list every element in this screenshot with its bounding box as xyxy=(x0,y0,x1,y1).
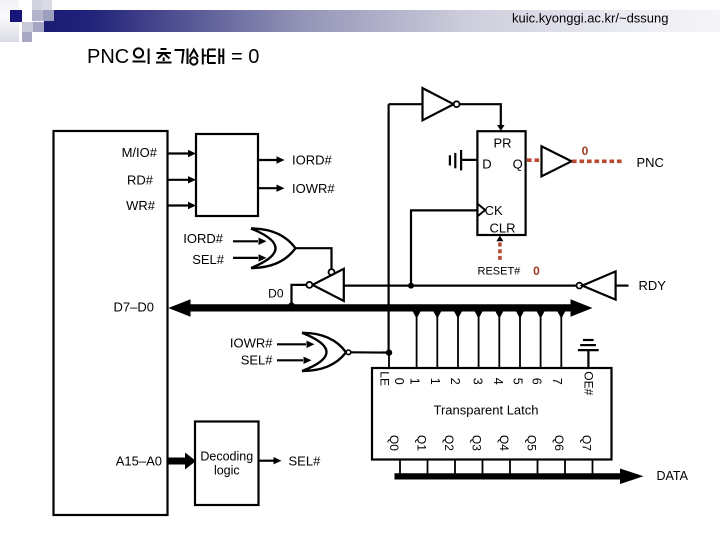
nor-gate G2 xyxy=(302,333,346,371)
wire U5 output xyxy=(616,285,629,287)
header light square E xyxy=(22,22,33,32)
svg-text:5: 5 xyxy=(510,378,524,385)
svg-text:Transparent Latch: Transparent Latch xyxy=(433,403,538,418)
nor bubble G2 xyxy=(346,350,351,355)
wire G1 input A xyxy=(233,240,258,242)
enable bubble U2 xyxy=(329,269,335,275)
output bubble U2 xyxy=(306,282,312,288)
title hangul ui xyxy=(133,48,149,64)
svg-text:PNC: PNC xyxy=(87,46,129,68)
tri-state buffer U2 xyxy=(313,269,344,301)
thick arrow A15-A0 xyxy=(168,453,197,470)
header lavender square C xyxy=(32,10,43,21)
junction dot D0 xyxy=(288,302,294,308)
svg-text:OE#: OE# xyxy=(582,371,596,395)
svg-text:A15–A0: A15–A0 xyxy=(116,454,162,469)
latch input drop wires xyxy=(417,311,562,368)
svg-text:Q7: Q7 xyxy=(580,435,594,451)
svg-text:Q4: Q4 xyxy=(497,435,511,451)
decoding logic box U7 xyxy=(195,422,259,506)
ground at OE# xyxy=(578,340,599,368)
header lavender square F xyxy=(33,22,44,32)
svg-text:IOWR#: IOWR# xyxy=(292,181,335,196)
system bus box xyxy=(54,131,168,515)
svg-text:IORD#: IORD# xyxy=(292,153,333,168)
svg-text:1: 1 xyxy=(407,378,421,385)
svg-text:IORD#: IORD# xyxy=(183,231,224,246)
wire RESET# xyxy=(344,285,577,287)
svg-text:Q5: Q5 xyxy=(525,435,539,451)
dashed wire U4 to PNC xyxy=(572,160,624,164)
wire SEL# out xyxy=(259,460,275,462)
svg-text:IOWR#: IOWR# xyxy=(230,336,273,351)
svg-text:Decoding: Decoding xyxy=(200,449,253,463)
svg-text:kuic.kyonggi.ac.kr/~dssung: kuic.kyonggi.ac.kr/~dssung xyxy=(512,11,668,26)
title hangul sang xyxy=(190,49,207,65)
svg-text:0: 0 xyxy=(533,264,540,278)
wire WR# xyxy=(168,204,190,206)
data bus D7-D0 xyxy=(168,299,592,316)
header navy square xyxy=(10,10,22,22)
junction dot CK xyxy=(408,283,414,289)
DATA bus xyxy=(395,469,644,485)
svg-text:6: 6 xyxy=(530,378,544,385)
wire U3 output to PR xyxy=(460,104,501,126)
svg-text:SEL#: SEL# xyxy=(241,353,274,368)
CLR arrowhead xyxy=(496,236,503,242)
wire G2 input A xyxy=(277,343,306,345)
wire IOWR# out xyxy=(258,187,277,189)
wire to D xyxy=(461,159,477,161)
wire CK xyxy=(411,210,477,285)
bubble U5 xyxy=(577,283,583,289)
svg-text:WR#: WR# xyxy=(126,198,156,213)
svg-text:Q6: Q6 xyxy=(552,435,566,451)
svg-text:Q: Q xyxy=(513,157,523,172)
wire G1 input B xyxy=(233,257,258,259)
svg-text:SEL#: SEL# xyxy=(192,252,225,267)
header light square B xyxy=(42,0,52,10)
title hangul gi xyxy=(175,49,188,65)
header gray-blue square D xyxy=(43,10,54,21)
svg-text:DATA: DATA xyxy=(657,469,689,483)
wire U3 input xyxy=(389,103,423,105)
svg-text:D: D xyxy=(482,157,491,172)
svg-text:logic: logic xyxy=(214,463,240,477)
dashed wire Q to U4 xyxy=(527,158,541,162)
header gradient bar top xyxy=(54,10,720,21)
header light square A xyxy=(32,0,42,10)
latch output wires xyxy=(400,460,593,474)
D flip-flop U1 xyxy=(477,131,525,235)
wire U2 output to bus xyxy=(292,285,307,305)
wire G2 input B xyxy=(277,359,303,361)
svg-text:Q3: Q3 xyxy=(470,435,484,451)
latch input arrowheads xyxy=(413,311,566,318)
title hangul cho xyxy=(156,49,172,63)
vertical wire G2 to inverter U3 xyxy=(388,104,390,352)
svg-text:= 0: = 0 xyxy=(231,46,259,68)
logic-0 ground at D xyxy=(450,150,461,170)
svg-text:Q2: Q2 xyxy=(442,435,456,451)
wire G2 output xyxy=(351,351,389,354)
svg-text:RDY: RDY xyxy=(639,278,667,293)
svg-text:RESET#: RESET# xyxy=(478,266,522,278)
svg-text:4: 4 xyxy=(491,378,505,385)
svg-text:RD#: RD# xyxy=(127,173,154,188)
header gradient bar bottom xyxy=(44,21,720,32)
header left wash xyxy=(0,0,19,42)
or-gate G1 xyxy=(251,229,296,269)
title hangul tae xyxy=(208,49,223,65)
svg-text:M/IO#: M/IO# xyxy=(122,145,158,160)
buffer U4 xyxy=(542,146,572,176)
bubble U3 xyxy=(454,101,460,107)
svg-text:SEL#: SEL# xyxy=(289,453,322,468)
wire LE xyxy=(388,353,390,368)
inverter U3 xyxy=(423,88,454,120)
svg-text:Q0: Q0 xyxy=(387,435,401,451)
svg-text:0: 0 xyxy=(392,378,406,385)
svg-text:2: 2 xyxy=(448,378,462,385)
svg-text:PR: PR xyxy=(493,135,511,150)
wire M/IO# xyxy=(168,152,190,154)
svg-text:0: 0 xyxy=(582,144,589,158)
svg-text:Q1: Q1 xyxy=(415,435,429,451)
svg-text:1: 1 xyxy=(428,378,442,385)
wire G1 output xyxy=(296,248,332,269)
wire RD# xyxy=(168,179,190,181)
svg-text:PNC: PNC xyxy=(637,155,664,170)
clock wedge xyxy=(477,204,485,217)
PR arrowhead xyxy=(497,125,504,131)
svg-text:7: 7 xyxy=(550,378,564,385)
inverter U5 xyxy=(582,271,615,299)
svg-text:CK: CK xyxy=(485,203,503,218)
transparent latch U6 xyxy=(372,368,612,460)
dashed wire CLR to RESET# xyxy=(498,243,502,262)
svg-text:LE: LE xyxy=(378,371,392,386)
header lavender square G xyxy=(22,32,32,42)
wire IORD# out xyxy=(258,159,277,161)
control decoder box xyxy=(196,134,258,216)
svg-text:CLR: CLR xyxy=(489,220,515,235)
svg-text:D0: D0 xyxy=(268,287,284,301)
svg-text:3: 3 xyxy=(471,378,485,385)
junction dot LE xyxy=(386,349,392,355)
svg-text:D7–D0: D7–D0 xyxy=(114,300,154,315)
